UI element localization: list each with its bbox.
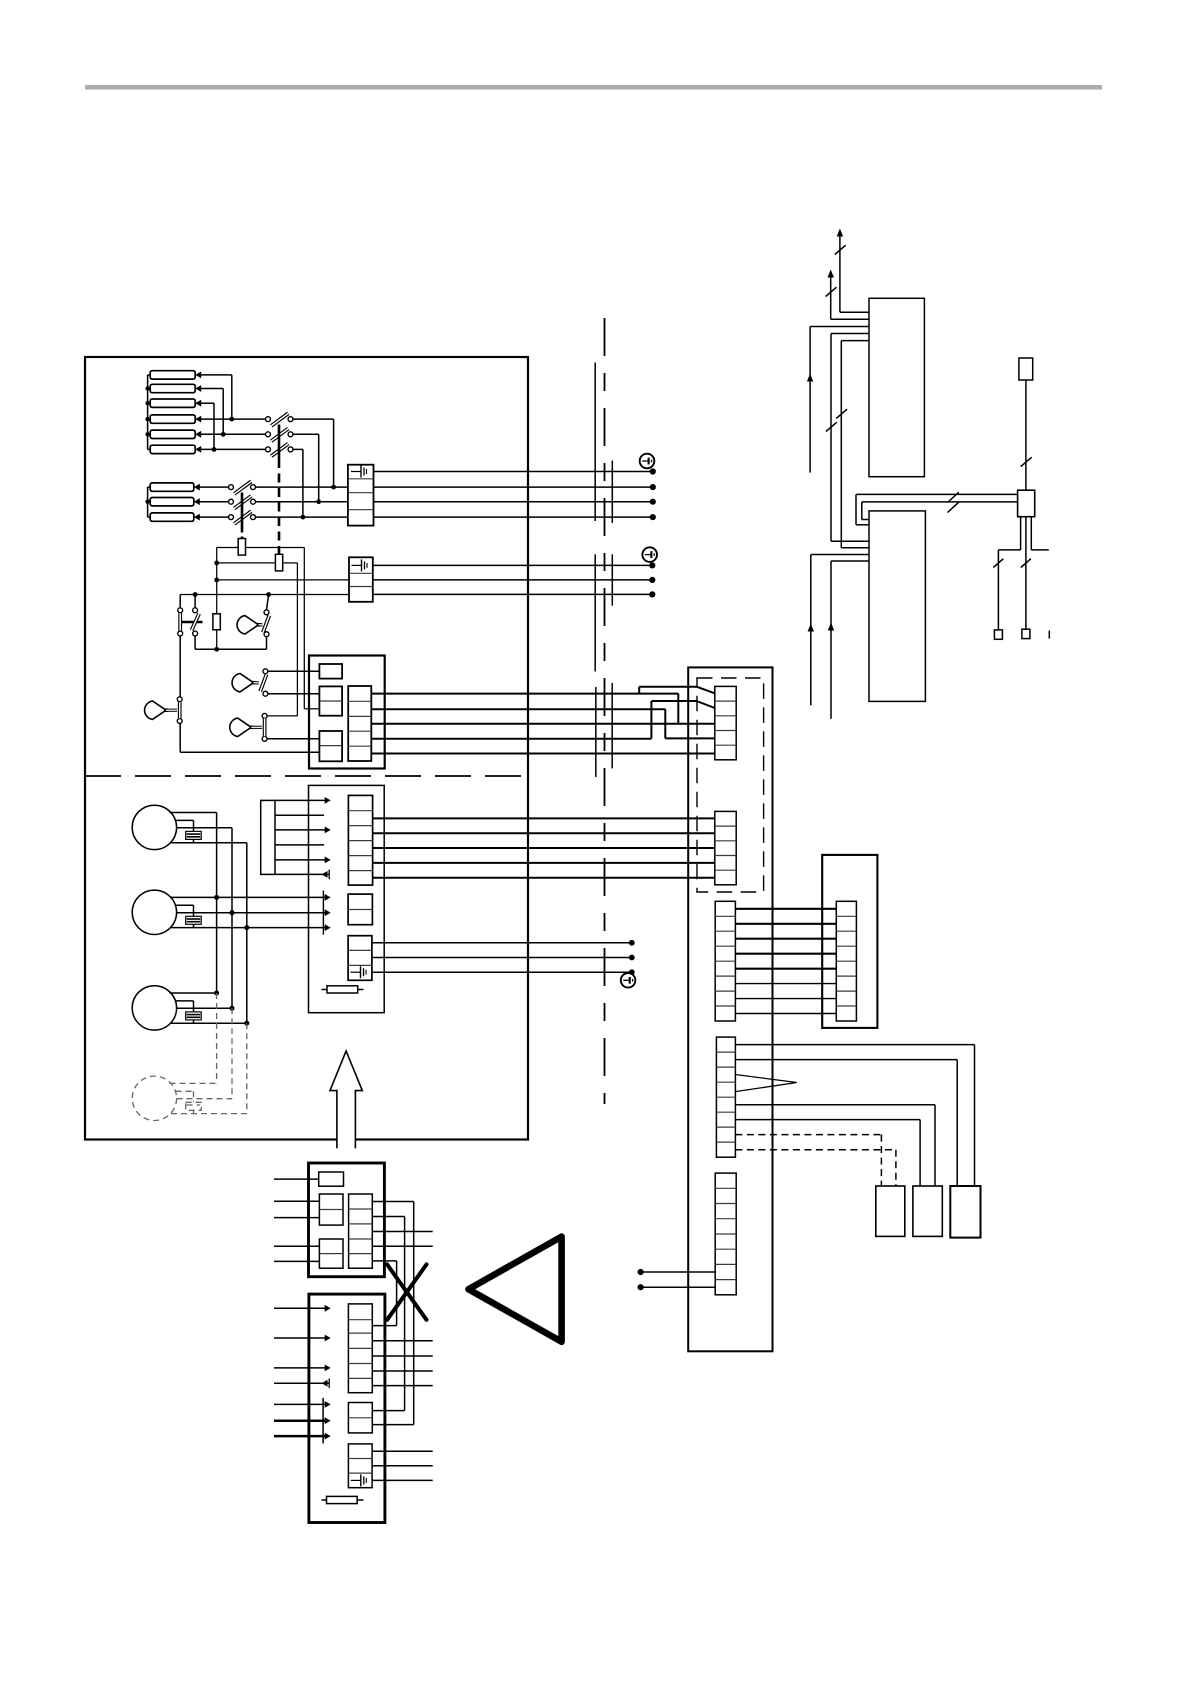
connector CN5: [715, 1173, 736, 1295]
M1 top wire: [170, 812, 217, 814]
protector TH4 (left, on main line): [145, 701, 166, 719]
M4 bottom wire (dashed): [171, 1113, 247, 1115]
PCB fuse F3: [322, 989, 364, 991]
motor bus 3: [246, 843, 248, 1024]
board A wire to board B (k2): [372, 1216, 404, 1218]
TH3 wire to relay board: [267, 738, 320, 740]
board B output wire to k3: [372, 1325, 396, 1327]
signal pennant: [736, 1075, 797, 1092]
relay link wire r8: [735, 1013, 836, 1015]
power wires TB1 -> field: [374, 471, 653, 473]
fan motor M1: [132, 805, 176, 849]
earth symbol E3: [621, 973, 636, 988]
contactor contact A (left pole): [179, 595, 181, 608]
wire W2: [217, 562, 276, 564]
SW2 mechanical linkage (dashed): [241, 493, 244, 528]
protector TH2: [232, 674, 253, 692]
bundle bracket C: [594, 554, 596, 671]
fan motor M3: [132, 986, 176, 1030]
sensor wire s3: [372, 971, 632, 973]
board B stub wires: [372, 1340, 432, 1342]
wire W3 to TB2: [217, 579, 349, 581]
relay link wire r6: [735, 983, 836, 985]
SW2 pole1 wire to terminal block TB1: [255, 486, 348, 488]
bundle bracket E: [595, 687, 597, 777]
pointer triangle: [469, 1237, 562, 1342]
bundle bracket F: [611, 683, 613, 768]
switch SW2 pole2: [229, 499, 234, 504]
connector CN2: [715, 811, 736, 884]
relay link wire r2: [735, 923, 836, 925]
heater L2: [150, 498, 194, 506]
terminal bar wire 5: [275, 859, 327, 861]
lower heater left bus: [147, 487, 149, 517]
remote sensor box: [1019, 358, 1033, 380]
terminal group dashed box: [697, 678, 764, 892]
wire u5 (box1 to box2): [841, 340, 869, 342]
contactor coil branch wire: [216, 548, 218, 614]
terminal bar wire 6: [275, 873, 329, 875]
relay board connector CN-b: [319, 686, 342, 715]
output wire o1: [371, 693, 678, 695]
relay board output connector CN-d: [348, 686, 371, 761]
outdoor control board outline: [688, 667, 772, 1351]
relay link wire r1: [735, 908, 836, 910]
contactor linkage bar: [181, 621, 203, 624]
compartment divider (dash-dot): [85, 775, 528, 777]
PCB connector CN10: [348, 795, 372, 885]
contactor contact B (right pole): [194, 595, 196, 608]
switch SW2 pole1: [229, 485, 234, 490]
wire u2 (arrow up): [831, 318, 869, 320]
M4 top wire (dashed): [170, 1082, 217, 1084]
heater left bus wire: [147, 375, 149, 450]
board A input stubs: [274, 1178, 319, 1180]
wire W1: [217, 547, 239, 549]
relay link wire r4: [735, 953, 836, 955]
heater H6: [150, 445, 195, 453]
output wire o4: [371, 738, 651, 740]
board B input wire thin: [274, 1403, 327, 1405]
SW2 pole3 wire to TB1: [255, 516, 348, 518]
CN4 wire to sensor box S3: [735, 1044, 974, 1046]
board B tick bar: [322, 1398, 324, 1444]
output wire o5: [371, 753, 715, 755]
sensor wire s1: [372, 942, 632, 944]
fuse F2: [275, 554, 282, 571]
connector CN4: [716, 1037, 735, 1157]
sensor box S2: [913, 1186, 942, 1236]
relay board connector CN-a: [319, 664, 342, 679]
M4 mid wire (dashed): [177, 1098, 233, 1100]
heater H3 wire to switch pole3: [195, 400, 201, 407]
heater H3: [150, 399, 195, 407]
M4 bus risers (dashed): [216, 993, 218, 1083]
control wires TB2 -> field: [373, 564, 653, 566]
protector TH1: [237, 616, 258, 634]
relay link wire r7: [735, 998, 836, 1000]
M3 bottom wire: [171, 1022, 247, 1024]
terminal bar wire 1: [275, 799, 327, 801]
CN4 wire to sensor box S2: [735, 1104, 935, 1106]
board B connector BR2: [348, 1403, 372, 1433]
terminal bar wire 4: [275, 844, 324, 846]
M2 mid wire: [177, 912, 328, 914]
switch SW1 pole3: [266, 447, 271, 452]
board A wire to board B (k3): [372, 1260, 396, 1262]
control box outline: [85, 357, 528, 1140]
lead terminal a: [994, 630, 1002, 639]
wire W1 drop to relay board: [303, 548, 305, 709]
relay sub-board connector: [836, 901, 856, 1021]
power harness wire p2: [373, 832, 715, 834]
wire W2 drop to protector TH3: [296, 563, 298, 716]
wire to relay board bottom: [180, 751, 319, 753]
M4 capacitor (dashed): [176, 1090, 194, 1092]
power harness wire p5: [373, 877, 715, 879]
heater H4 wire: [195, 416, 201, 423]
board B connector BR1: [348, 1304, 372, 1393]
board A connector A1: [319, 1194, 343, 1225]
outdoor unit box 2: [869, 511, 925, 702]
terminal block TB2: [349, 557, 373, 602]
indoor PCB outline: [309, 785, 385, 1012]
M2 top wire: [170, 896, 327, 898]
sensor wire s2: [372, 957, 632, 959]
optional motor M4 (dashed): [132, 1076, 176, 1120]
SW1 pole3 output wire: [293, 448, 303, 450]
board A connector A2: [319, 1239, 343, 1268]
lead terminal b: [1022, 629, 1030, 638]
M3 top wire: [170, 992, 217, 994]
SW2 pole2 wire to TB1: [255, 501, 348, 503]
heater L1 wire: [194, 484, 200, 491]
M3 mid wire: [177, 1007, 233, 1009]
CN5 input wire b: [641, 1286, 716, 1288]
board B input wires: [274, 1307, 327, 1309]
sensor box S3: [950, 1186, 980, 1238]
TH2 wires to relay board: [268, 670, 320, 672]
relay board outline: [309, 656, 385, 769]
output wire o1 branch to CN1 pin1: [638, 687, 640, 694]
M1 bottom wire: [171, 842, 247, 844]
heater H4: [150, 415, 195, 423]
heater H5: [150, 430, 195, 438]
wire u3 (down stub with arrow): [810, 326, 869, 328]
PCB connector CN11: [348, 894, 372, 925]
board A stub wires: [372, 1231, 432, 1233]
fan motor M2: [132, 890, 176, 934]
terminal bar wire 3: [275, 829, 327, 831]
M1 capacitor: [176, 819, 194, 821]
junction leads: [1020, 517, 1022, 550]
power harness wire p1: [373, 817, 715, 819]
clipped mark: [1048, 631, 1050, 639]
board B outputs to k2/k1: [372, 1410, 404, 1412]
PCB connector CN12: [348, 936, 372, 981]
heater L3 wire: [194, 514, 200, 521]
M2 capacitor: [176, 904, 194, 906]
wire u6 (down stub with arrow): [811, 554, 869, 556]
power harness wire p3: [373, 847, 715, 849]
bundle bracket A: [594, 363, 596, 522]
M3 capacitor: [176, 1000, 194, 1002]
field wiring partition (chain line): [604, 318, 606, 1104]
board A connector AR: [349, 1194, 373, 1268]
switch SW2 pole3: [229, 515, 234, 520]
M1 mid wire: [177, 827, 233, 829]
junction box: [1018, 490, 1035, 517]
power harness wire p4: [373, 862, 715, 864]
SW1 pole2 output wire: [293, 433, 319, 435]
option board B outline: [309, 1294, 385, 1522]
wire u1 (to power, arrow up): [840, 311, 869, 313]
SW1 mechanical linkage (dashed): [278, 425, 281, 460]
crossed-out mark: [387, 1264, 426, 1319]
heater H1: [150, 371, 195, 379]
relay link wire r3: [735, 938, 836, 940]
earth symbol E1: [640, 454, 655, 469]
wire u4 (box1 to box2): [831, 333, 869, 335]
interunit wire pair to junction: [856, 493, 1018, 495]
board B input wire thick b: [274, 1435, 327, 1438]
wire W4 to TB2: [180, 594, 349, 596]
terminal bar wire 2: [275, 814, 324, 816]
relay board connector CN-c: [319, 731, 342, 761]
connector tick bar: [322, 891, 324, 935]
output wire o3: [371, 723, 715, 725]
board A connector small: [319, 1172, 344, 1186]
heater L1: [150, 483, 194, 491]
heater H6 wire: [195, 446, 201, 453]
sensor lead: [1025, 380, 1027, 490]
board B BR3 stubs: [372, 1450, 433, 1452]
heater H2 wire to switch pole2: [195, 385, 201, 392]
header grey rule: [85, 85, 1102, 90]
motor bus 2: [231, 828, 233, 1009]
heater H1 wire to switch pole1: [195, 372, 201, 379]
earth symbol E2: [642, 547, 657, 562]
board A wire to board B (k1): [372, 1201, 413, 1203]
fuse F1: [238, 539, 245, 556]
output wire o2: [371, 708, 665, 710]
CN5 input wire a: [641, 1271, 716, 1273]
board B fuse F4: [322, 1499, 364, 1501]
terminal block TB1: [348, 465, 374, 526]
connector CN3: [715, 901, 735, 1021]
heater H5 wire: [195, 431, 201, 438]
terminal bar: [261, 800, 275, 874]
wire from contact B to protector TH1: [195, 648, 266, 650]
connector CN1: [715, 686, 736, 759]
M2 bottom wire: [171, 927, 327, 929]
CN4 dashed wires to sensor box S1: [735, 1135, 896, 1186]
option board A outline: [309, 1163, 385, 1277]
board B connector BR3: [348, 1444, 372, 1488]
relay link wire r5: [735, 968, 836, 970]
sensor box S1: [876, 1186, 905, 1236]
bundle bracket D: [611, 554, 613, 605]
heater L2 wire: [194, 498, 200, 505]
contactor coil MC: [213, 614, 220, 630]
relay sub-board: [822, 855, 877, 1028]
board B input wire thick a: [274, 1419, 327, 1422]
heater H2: [150, 384, 195, 392]
switch SW1 pole1: [266, 417, 271, 422]
bundle bracket B: [611, 461, 613, 524]
wire u7 (down stub with arrow): [831, 560, 869, 562]
heater L3: [150, 513, 194, 521]
protector TH3: [230, 718, 251, 736]
block arrow (up): [330, 1051, 362, 1148]
switch SW1 pole2: [266, 432, 271, 437]
SW1 pole1 output wire: [293, 418, 334, 420]
outdoor unit box 1: [869, 298, 924, 476]
motor bus 1: [216, 813, 218, 994]
